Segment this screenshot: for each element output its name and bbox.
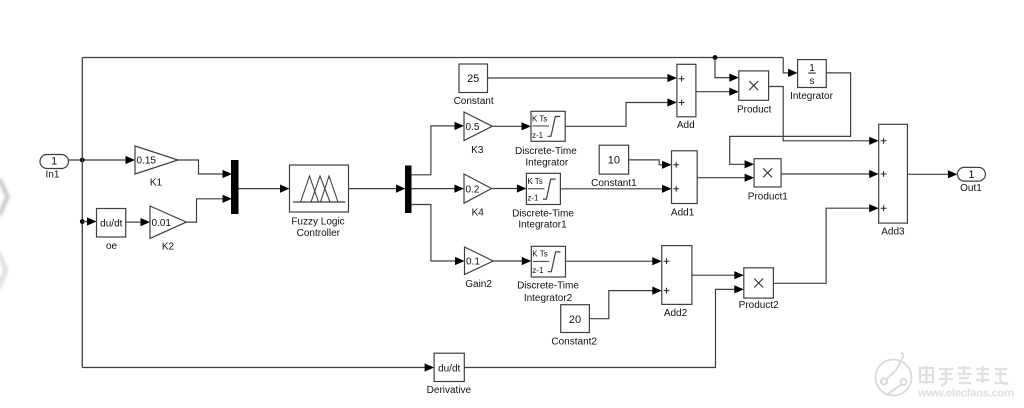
- wire Product1 to Add3 input 2: [781, 173, 870, 175]
- svg-text:Integrator: Integrator: [790, 91, 833, 102]
- arrowhead into K1: [126, 156, 136, 164]
- product block Product1: [748, 159, 788, 203]
- product block Product2: [739, 268, 779, 311]
- wire Discrete-Time Integrator to Add input 2: [565, 103, 668, 127]
- constant block Constant2 value 20: [551, 305, 597, 348]
- wire Derivative to Product2 input 2: [464, 289, 735, 367]
- constant block Constant1 value 10: [591, 145, 637, 189]
- outport Out1: [957, 167, 985, 193]
- inport In1: [40, 155, 69, 181]
- svg-text:0.15: 0.15: [137, 156, 157, 167]
- node junction on top line: [713, 55, 718, 60]
- arrowhead into Discrete-Time Integrator1: [517, 184, 527, 192]
- svg-text:Discrete-Time: Discrete-Time: [517, 281, 579, 292]
- arrowhead into Gain2: [455, 257, 465, 265]
- arrowhead into Add3 input 2: [869, 170, 879, 178]
- wire Demux output 2 to K4: [411, 188, 455, 190]
- svg-text:du/dt: du/dt: [438, 363, 460, 374]
- wire Add2 to Product2 input 1: [692, 274, 735, 276]
- svg-text:20: 20: [569, 314, 581, 326]
- wire Add1 to Product1 input 2: [697, 177, 745, 179]
- svg-text:1: 1: [809, 63, 815, 74]
- wire Add3 to Out1: [907, 173, 949, 175]
- wire Product2 to Add3 input 3: [773, 208, 870, 283]
- product block Product: [737, 71, 772, 116]
- wire Fuzzy Logic Controller to Demux: [349, 188, 398, 190]
- wire Product to Add3 input 1: [769, 87, 871, 141]
- arrowhead into Add1 input 2: [662, 185, 672, 193]
- svg-text:z-1: z-1: [532, 131, 544, 140]
- wire K2 to Mux input 2: [186, 199, 223, 222]
- wire top line to Product/Integrator: [82, 57, 783, 59]
- wire Constant1 to Add1 input 1: [629, 160, 663, 165]
- svg-text:Integrator1: Integrator1: [518, 220, 567, 231]
- svg-text:Add1: Add1: [671, 208, 695, 219]
- discrete-time integrator1 block U_DTI1: [512, 173, 574, 230]
- svg-text:Integrator: Integrator: [525, 158, 568, 169]
- fuzzy logic controller block: [290, 165, 349, 239]
- wire K3 to Discrete-Time Integrator: [492, 125, 522, 127]
- svg-text:1: 1: [968, 169, 974, 181]
- svg-text:www.elecfans.com: www.elecfans.com: [917, 387, 1014, 399]
- svg-text:Discrete-Time: Discrete-Time: [512, 208, 574, 219]
- wire Discrete-Time Integrator1 to Add1 input 2: [560, 188, 663, 190]
- svg-text:Product1: Product1: [748, 192, 788, 203]
- svg-text:Product: Product: [737, 105, 772, 116]
- svg-text:Controller: Controller: [297, 228, 341, 239]
- arrowhead into Fuzzy Logic Controller: [280, 185, 290, 193]
- svg-text:25: 25: [467, 73, 479, 85]
- constant block Constant value 25: [454, 64, 494, 107]
- sum block Add: [677, 64, 696, 131]
- arrowhead into Discrete-Time Integrator2: [522, 257, 532, 265]
- svg-text:Add2: Add2: [664, 308, 688, 319]
- svg-text:10: 10: [608, 155, 620, 167]
- wire top line drop to Integrator input: [783, 58, 789, 73]
- svg-text:z-1: z-1: [532, 266, 544, 275]
- arrowhead into Add input 1: [667, 74, 677, 82]
- arrowhead into Product1 input 2: [745, 174, 755, 182]
- svg-text:In1: In1: [46, 170, 60, 181]
- arrowhead into Add3 input 3: [869, 204, 879, 212]
- svg-text:K Ts: K Ts: [527, 177, 542, 186]
- arrowhead into Derivative: [425, 363, 435, 371]
- left carousel chevron 2: [0, 253, 6, 287]
- wire Mux to Fuzzy Logic Controller: [238, 188, 281, 190]
- arrowhead into Product1 input 1: [745, 160, 755, 168]
- svg-text:Constant: Constant: [454, 96, 494, 107]
- svg-text:K2: K2: [162, 242, 175, 253]
- demux bar: [406, 166, 412, 213]
- svg-text:Product2: Product2: [739, 300, 779, 311]
- svg-text:0.2: 0.2: [466, 184, 480, 195]
- svg-text:Constant2: Constant2: [551, 337, 597, 348]
- svg-text:Gain2: Gain2: [465, 279, 492, 290]
- derivative block oe: [97, 209, 126, 253]
- wire In1 to K1: [69, 159, 127, 161]
- wire Demux output 3 to Gain2: [411, 205, 456, 262]
- arrowhead into Add3 input 1: [869, 137, 879, 145]
- wire Discrete-Time Integrator2 to Add2 input 1: [566, 260, 654, 262]
- discrete-time integrator block U_DTI: [515, 111, 577, 168]
- wire K4 to Discrete-Time Integrator1: [492, 188, 518, 190]
- arrowhead into Mux input 1: [223, 170, 233, 178]
- integrator block 1/s: [790, 60, 833, 103]
- gain Gain2: [465, 247, 494, 290]
- derivative block Derivative: [427, 353, 472, 396]
- arrowhead into Integrator: [788, 69, 798, 77]
- mux bar: [232, 161, 239, 214]
- watermark brand glyphs: [920, 366, 1009, 386]
- gain K2: [150, 206, 186, 253]
- arrowhead into K3: [455, 122, 465, 130]
- arrowhead into Demux: [396, 185, 406, 193]
- wire K1 to Mux input 1: [178, 160, 224, 174]
- wire trunk to Derivative: [82, 367, 425, 369]
- svg-text:Constant1: Constant1: [591, 178, 637, 189]
- svg-text:K4: K4: [472, 208, 485, 219]
- svg-text:Add3: Add3: [881, 227, 905, 238]
- wire Gain2 to Discrete-Time Integrator2: [493, 260, 523, 262]
- svg-text:du/dt: du/dt: [100, 218, 122, 229]
- arrowhead into Product2 input 2: [734, 285, 744, 293]
- svg-text:1: 1: [51, 155, 57, 167]
- arrowhead into oe: [87, 217, 97, 225]
- svg-text:K3: K3: [471, 145, 484, 156]
- arrowhead into Add2 input 2: [652, 287, 662, 295]
- arrowhead into Mux input 2: [223, 195, 233, 203]
- wire Demux output 1 to K3: [411, 126, 456, 175]
- left carousel chevron 1: [0, 180, 8, 214]
- arrowhead into K4: [454, 185, 464, 193]
- arrowhead into Add2 input 1: [652, 257, 662, 265]
- wire feedback vertical trunk: [81, 58, 83, 368]
- svg-text:Discrete-Time: Discrete-Time: [515, 146, 577, 157]
- svg-text:oe: oe: [106, 241, 118, 252]
- node junction to oe: [80, 219, 85, 224]
- sum block Add3: [879, 124, 908, 237]
- svg-text:0.01: 0.01: [152, 218, 172, 229]
- svg-text:K Ts: K Ts: [532, 114, 547, 123]
- arrowhead into Out1: [948, 170, 958, 178]
- arrowhead into Discrete-Time Integrator: [522, 122, 532, 130]
- svg-text:Fuzzy Logic: Fuzzy Logic: [291, 216, 344, 227]
- svg-text:Derivative: Derivative: [427, 385, 472, 396]
- arrowhead into K2: [141, 218, 151, 226]
- wire Constant to Add input 1: [488, 77, 669, 79]
- arrowhead into Add1 input 1: [662, 161, 672, 169]
- wire trunk to oe block: [82, 221, 88, 223]
- wire Constant2 to Add2 input 2: [589, 291, 653, 319]
- arrowhead into Product input 2: [729, 88, 739, 96]
- svg-text:0.5: 0.5: [466, 122, 480, 133]
- arrowhead into Product2 input 1: [734, 271, 744, 279]
- gain K1: [135, 146, 178, 189]
- wire oe to K2: [126, 221, 142, 223]
- wire Integrator to Product1 input 1: [730, 73, 851, 164]
- node junction on In1 wire: [80, 158, 85, 163]
- svg-text:Out1: Out1: [960, 183, 982, 194]
- svg-text:K Ts: K Ts: [532, 250, 547, 259]
- gain K4: [464, 174, 492, 219]
- svg-text:0.1: 0.1: [466, 257, 480, 268]
- svg-text:K1: K1: [150, 178, 163, 189]
- arrowhead into Add input 2: [667, 98, 677, 106]
- gain K3: [464, 112, 492, 156]
- discrete-time integrator2 block U_DTI2: [517, 246, 579, 304]
- svg-text:Add: Add: [677, 120, 695, 131]
- svg-text:s: s: [810, 76, 815, 87]
- watermark logo circle: [876, 352, 912, 395]
- wire top line drop to Product input 1: [715, 58, 730, 78]
- svg-text:Integrator2: Integrator2: [524, 293, 573, 304]
- wire Add to Product input 2: [696, 91, 730, 93]
- arrowhead into Product input 1: [729, 74, 739, 82]
- svg-text:z-1: z-1: [527, 194, 539, 203]
- sum block Add2: [662, 246, 692, 320]
- sum block Add1: [671, 151, 697, 219]
